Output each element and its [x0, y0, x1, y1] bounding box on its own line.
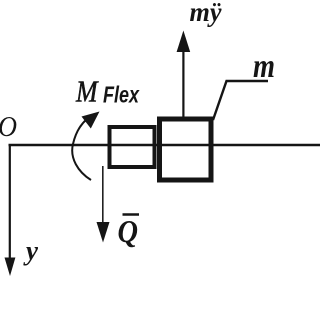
- leader line for mass label m: [213, 81, 268, 120]
- svg-text:y: y: [23, 236, 39, 266]
- svg-text:Q: Q: [118, 213, 139, 249]
- small rectangle (shaft element): [110, 127, 155, 167]
- large rectangle (mass block): [160, 119, 212, 180]
- shear force arrow Q: [102, 166, 104, 224]
- svg-text:mÿ: mÿ: [190, 0, 223, 27]
- axis line (horizontal datum through O): [9, 144, 320, 147]
- svg-text:M: M: [75, 74, 99, 109]
- bending moment arc M_Flex: [72, 119, 91, 180]
- inertia force arrow m y-dotdot: [182, 50, 184, 117]
- svg-text:Flex: Flex: [103, 82, 140, 108]
- svg-text:O: O: [0, 112, 17, 143]
- moment arrowhead: [82, 112, 100, 129]
- svg-text:m: m: [253, 48, 275, 85]
- y-axis arrow: [9, 146, 11, 260]
